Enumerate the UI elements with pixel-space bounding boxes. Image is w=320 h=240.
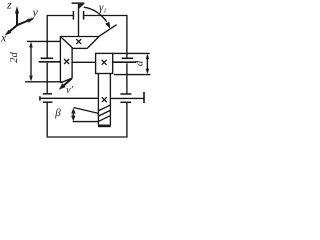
frame left vertical upper [46, 15, 48, 58]
arrow gamma1 arc [84, 7, 107, 22]
bevel gear 2 left edge [59, 37, 61, 83]
bevel cone contact diagonal [99, 25, 117, 37]
dimension 2d line [30, 44, 32, 79]
dimension 2d bottom extension line [25, 81, 62, 83]
dimension d line [146, 56, 148, 72]
axis x line [9, 25, 17, 32]
axis y arrowhead [27, 18, 34, 23]
bearing B2 bottom plate and shaft line [39, 61, 61, 63]
rack hatch stroke 3 [99, 116, 110, 121]
gear 4 cross mark [102, 97, 107, 102]
bevel gear 1 left slant [60, 37, 73, 49]
axis y line [17, 20, 30, 25]
bevel gear 2 cross mark [64, 59, 69, 64]
bevel gear 2 right edge [71, 48, 73, 79]
svg-text:z: z [6, 0, 12, 11]
dimension d bottom extension line [114, 74, 150, 76]
arrow v-prime head [59, 83, 66, 90]
rack guide right edge [109, 74, 111, 125]
shaft 1 vertical [78, 4, 80, 37]
shaft 3 horizontal left portion [40, 97, 99, 99]
dimension 2d lower arrowhead [29, 76, 33, 82]
frame bottom line [47, 136, 128, 138]
arrow v-prime line [62, 78, 72, 87]
shaft 2 horizontal to gear box [72, 61, 96, 63]
angle beta ray upper [74, 108, 99, 114]
bearing B2 top plate [41, 57, 54, 59]
dimension d lower arrowhead [146, 69, 150, 75]
bearing B4 end bar [143, 92, 145, 103]
angle beta ray lower [73, 121, 99, 123]
bevel gear 1 right slant [87, 37, 99, 49]
bearing B1 right bar [83, 11, 85, 20]
rack bottom bar [98, 125, 111, 128]
svg-text:v′: v′ [66, 85, 74, 96]
axis x arrowhead [5, 30, 12, 36]
svg-text:x: x [0, 31, 7, 45]
dimension 2d top extension line [27, 40, 61, 42]
bearing B4 lower cap [120, 101, 131, 103]
bearing B1 left bar [72, 11, 74, 20]
rack hatch stroke 2 [99, 111, 110, 116]
bevel gear 1 top edge [60, 36, 100, 38]
angle beta upper arrowhead [71, 108, 75, 114]
svg-text:d: d [134, 60, 146, 66]
dimension d upper arrowhead [146, 54, 150, 60]
arrow gamma1 head [105, 22, 110, 29]
dimension 2d upper arrowhead [29, 42, 33, 48]
svg-text:β: β [54, 107, 61, 119]
angle beta double arrow shaft [72, 111, 74, 119]
svg-text:2d: 2d [9, 52, 20, 63]
shaft 3 left end bar [39, 96, 41, 100]
gear 3 cross mark [102, 60, 107, 65]
bearing B1 top cap plate [72, 2, 85, 4]
bearing B5 lower cap [43, 101, 53, 103]
bevel gear 1 cross mark [76, 39, 81, 44]
axis z arrowhead [15, 6, 19, 14]
frame left vertical bottom post [46, 103, 48, 138]
frame top line left segment [47, 15, 73, 17]
frame right vertical middle [126, 63, 128, 94]
rack hatch stroke 1 [99, 105, 110, 110]
gear box 3 rectangle [96, 53, 113, 73]
bearing B1 hatch wedge [79, 4, 84, 9]
frame right vertical upper [126, 15, 128, 58]
svg-text:y: y [32, 5, 39, 19]
dimension d top extension line [113, 52, 150, 54]
shaft 3 horizontal right portion [110, 97, 143, 99]
bearing B3 bottom plate and shaft line [113, 61, 137, 63]
frame right vertical lower post [126, 102, 128, 137]
frame top line right segment [84, 15, 128, 17]
axis z line [16, 13, 18, 26]
bearing B3 top plate [122, 57, 134, 59]
frame left vertical lower [46, 63, 48, 94]
rack guide left edge [97, 74, 99, 125]
bearing B4 upper cap [120, 93, 131, 95]
bevel gear 2 bottom edge [60, 78, 72, 83]
angle beta lower arrowhead [71, 116, 75, 122]
bearing B5 upper cap [43, 93, 52, 95]
bevel gear 1 bottom edge [73, 47, 88, 49]
